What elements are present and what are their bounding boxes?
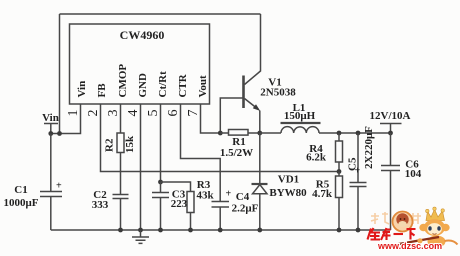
svg-text:+: + (355, 166, 361, 177)
svg-text:CTR: CTR (177, 73, 189, 97)
wire base drive (220, 98, 243, 133)
svg-text:VD1: VD1 (278, 174, 299, 186)
wire pin3 stub (120, 104, 122, 132)
node pin7/base/R1 junction (218, 131, 223, 136)
node C3 bus (158, 228, 163, 233)
capacitor C6 104 (381, 133, 400, 230)
wire collector drop (260, 14, 262, 72)
node C2 bus (118, 228, 123, 233)
IC U1 CW4960 box (70, 24, 210, 104)
capacitor C3 223 (152, 182, 169, 230)
svg-text:2X220μF: 2X220μF (363, 126, 375, 169)
wire pin5 down (160, 104, 162, 182)
node C4 bus (218, 228, 223, 233)
wire pin1 stub (51, 104, 81, 134)
svg-text:3: 3 (106, 110, 121, 117)
node pin5 osc junction (158, 180, 163, 185)
mascot tail (445, 240, 458, 244)
svg-text:Vin: Vin (42, 112, 59, 124)
svg-text:GND: GND (137, 73, 149, 98)
svg-text:1.5/2W: 1.5/2W (220, 147, 253, 159)
red brand text ku (381, 228, 391, 240)
node emitter/R1/L1 junction (257, 131, 262, 136)
node GND bus (138, 228, 143, 233)
svg-text:12V/10A: 12V/10A (370, 110, 411, 122)
wire pin2 FB line (101, 104, 340, 172)
wire output rail (319, 132, 391, 134)
svg-text:5: 5 (146, 110, 161, 117)
svg-text:4: 4 (126, 110, 141, 117)
diode VD1 BYW80 (259, 133, 261, 184)
watermark logo dzsc (368, 207, 458, 251)
wire pin6 to C4 (181, 104, 221, 202)
resistor R3 43k (187, 192, 194, 213)
node C5 top junction (356, 131, 361, 136)
mascot arm pen (396, 237, 439, 245)
capacitor C2 333 (113, 153, 129, 231)
svg-text:1000μF: 1000μF (4, 197, 39, 209)
svg-text:15k: 15k (124, 135, 136, 153)
resistor R5 4.7k (338, 172, 340, 177)
wire rail to L1 (260, 132, 281, 134)
svg-text:1: 1 (66, 110, 81, 117)
svg-text:4.7k: 4.7k (312, 188, 333, 200)
resistor R4 6.2k (338, 133, 340, 141)
svg-text:223: 223 (171, 198, 188, 210)
svg-text:C1: C1 (14, 184, 27, 196)
ground symbol (132, 230, 149, 243)
mascot head (419, 224, 427, 232)
capacitor C5 2x220uF (350, 133, 367, 230)
wire osc branch to R3 (161, 182, 191, 192)
node R4 top junction (337, 131, 342, 136)
svg-text:BYW80: BYW80 (269, 187, 307, 199)
svg-text:104: 104 (405, 168, 422, 180)
stamp circle face (393, 212, 413, 232)
red brand text yi (394, 233, 404, 235)
node C5 bus (356, 228, 361, 233)
svg-text:CW4960: CW4960 (120, 28, 165, 42)
svg-text:R2: R2 (104, 138, 116, 152)
wire top supply rail (60, 13, 261, 15)
mascot body (428, 236, 446, 248)
svg-text:43k: 43k (196, 190, 214, 202)
svg-text:Vin: Vin (76, 81, 88, 98)
ghost char jian (405, 213, 421, 224)
ghost char zhao (371, 212, 389, 224)
node R3 bus (188, 228, 193, 233)
node R4/R5 feedback junction (337, 169, 342, 174)
resistor R1 1.5/2W (220, 132, 259, 134)
svg-text:6: 6 (166, 110, 181, 117)
svg-text:FB: FB (96, 83, 108, 98)
red brand text xia (407, 229, 416, 240)
svg-text:Vout: Vout (197, 75, 209, 98)
svg-text:2: 2 (86, 110, 101, 117)
svg-text:CMOP: CMOP (117, 64, 129, 98)
wire pin4 GND down (140, 104, 142, 230)
resistor R2 15k (120, 132, 122, 153)
svg-text:150μH: 150μH (284, 110, 316, 122)
node outer-left junction (57, 131, 62, 136)
svg-text:6.2k: 6.2k (306, 152, 327, 164)
svg-text:333: 333 (92, 199, 109, 211)
node VD1 bus (257, 228, 262, 233)
capacitor C1 1000uF (40, 134, 62, 231)
wire ground bus (51, 229, 391, 231)
capacitor C4 2.2uF (212, 202, 230, 231)
svg-text:C4: C4 (236, 191, 250, 203)
mascot crown (426, 210, 445, 221)
svg-text:www.dzsc.com: www.dzsc.com (377, 241, 442, 251)
svg-text:Ct/Rt: Ct/Rt (157, 71, 169, 98)
transistor V1 2N5038 (242, 76, 245, 109)
red brand text wei (368, 228, 381, 240)
svg-text:+: + (226, 189, 232, 200)
wire pin7 to base node (201, 104, 221, 133)
output terminal 12V/10A (380, 124, 402, 134)
svg-text:2.2μF: 2.2μF (232, 203, 259, 215)
svg-text:7: 7 (186, 110, 201, 117)
svg-text:2N5038: 2N5038 (260, 87, 296, 99)
Vin input terminal (44, 124, 58, 134)
inductor L1 150uH (281, 127, 319, 133)
node R5 bus (337, 228, 342, 233)
wire outer left vertical (59, 14, 61, 134)
node Vin junction (48, 131, 53, 136)
svg-text:+: + (56, 181, 62, 192)
